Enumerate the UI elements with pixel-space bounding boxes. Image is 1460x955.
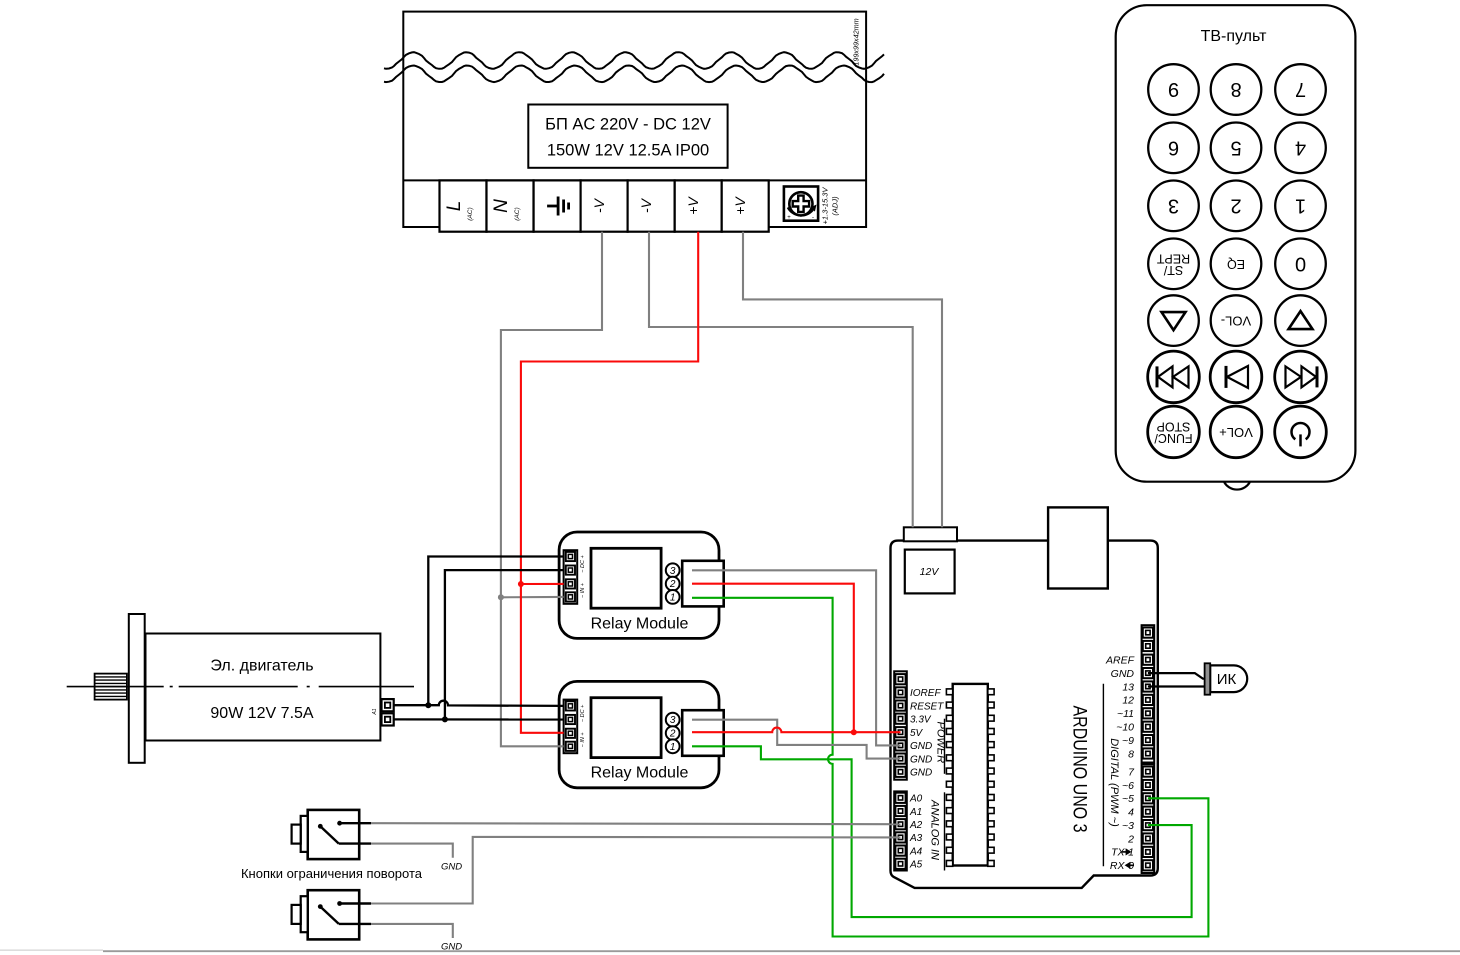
- pin POWER 7: [895, 754, 905, 764]
- svg-text:(ADJ): (ADJ): [831, 196, 840, 216]
- pin D6: [1143, 780, 1153, 790]
- svg-text:12V: 12V: [920, 566, 940, 578]
- svg-text:~11: ~11: [1117, 708, 1134, 720]
- pin D12 upper header 3: [1143, 668, 1153, 678]
- pin POWER 6: [895, 740, 905, 750]
- Arduino ANALOG IN header: [894, 791, 907, 870]
- relay RM2 output contact 2: [666, 726, 680, 740]
- terminal strip top line: [403, 179, 866, 181]
- remote button 7: [1275, 64, 1326, 115]
- Arduino DIGITAL header lower: [1142, 764, 1155, 873]
- limit switch SW1 body: [308, 810, 360, 859]
- remote button down arrow: [1148, 295, 1199, 346]
- svg-text:3.3V: 3.3V: [910, 715, 932, 726]
- Arduino UNO board body: [891, 541, 1158, 888]
- junction red at 5V line: [851, 729, 857, 735]
- svg-text:A5: A5: [909, 860, 923, 871]
- remote button EQ: [1211, 238, 1262, 289]
- relay RM1 input pin 1: [566, 552, 575, 561]
- svg-text:1: 1: [670, 742, 676, 753]
- svg-text:150W 12V 12.5A IP00: 150W 12V 12.5A IP00: [547, 142, 709, 160]
- pin D3: [1143, 820, 1153, 830]
- svg-text:Relay Module: Relay Module: [591, 765, 689, 782]
- remote button prev track: [1148, 351, 1200, 403]
- relay RM2 output contact 1: [666, 739, 680, 753]
- svg-text:7: 7: [1295, 78, 1306, 100]
- motor M1 shaft knurl: [95, 674, 127, 700]
- svg-text:БП AC 220V - DC 12V: БП AC 220V - DC 12V: [545, 116, 711, 134]
- wire relay2 out2 to Arduino 5V (red) with hop: [692, 728, 901, 733]
- relay RM1 input pin 3: [566, 579, 575, 588]
- terminal 1 (L): [440, 180, 487, 231]
- relay RM2 relay box: [591, 698, 661, 758]
- pin D13 upper header 2: [1143, 655, 1153, 665]
- svg-text:GND: GND: [910, 754, 932, 765]
- remote button up arrow: [1275, 295, 1326, 346]
- wire relay2 out3 to Arduino GND (gray): [692, 720, 901, 759]
- wire relay1 out1 to Arduino pin ~5 (green): [692, 598, 1208, 937]
- relay RM2 input pin 3: [566, 729, 575, 738]
- svg-text:ТВ-пульт: ТВ-пульт: [1201, 28, 1268, 45]
- power supply value label box: [528, 105, 727, 168]
- svg-text:90W 12V 7.5A: 90W 12V 7.5A: [210, 705, 314, 722]
- remote button 9: [1148, 64, 1199, 115]
- wire relay2 out1 to Arduino pin ~3 (green): [692, 746, 1192, 917]
- relay RM2 output terminal block: [682, 710, 724, 756]
- svg-text:4: 4: [1128, 807, 1134, 819]
- svg-text:3: 3: [1168, 194, 1179, 216]
- svg-text:L: L: [444, 201, 465, 212]
- pin D2: [1143, 833, 1153, 843]
- motor M1 body: [146, 634, 381, 741]
- remote button 0: [1275, 238, 1326, 289]
- svg-text:A1: A1: [909, 807, 922, 818]
- svg-text:8: 8: [1128, 748, 1134, 760]
- potentiometer ADJ screw: [784, 187, 818, 221]
- IR receiver leads: [1148, 673, 1206, 679]
- svg-text:0: 0: [1128, 860, 1134, 872]
- pin POWER 1: [895, 674, 905, 684]
- remote button 5: [1211, 123, 1262, 174]
- remote button 1: [1275, 181, 1326, 232]
- Arduino USB connector: [1048, 507, 1108, 588]
- svg-text:199x99x42mm: 199x99x42mm: [852, 18, 861, 65]
- svg-text:8: 8: [1230, 78, 1241, 100]
- svg-text:VOL+: VOL+: [1219, 425, 1253, 440]
- wire PSU +V to Arduino 12V jack (gray): [743, 232, 942, 528]
- svg-text:~9: ~9: [1122, 735, 1134, 747]
- svg-text:(AC): (AC): [467, 207, 474, 220]
- svg-text:+: +: [787, 215, 791, 221]
- terminal 2 (N): [487, 180, 534, 231]
- pin D7 upper header 8: [1143, 735, 1153, 745]
- remote button 4: [1275, 123, 1326, 174]
- relay RM1 output contact 1: [666, 590, 680, 604]
- junction motor wire 2: [442, 716, 448, 722]
- terminal 7 (+V): [722, 180, 769, 231]
- svg-text:GND: GND: [910, 741, 932, 752]
- svg-text:− DC +: − DC +: [580, 704, 586, 722]
- Arduino POWER header: [894, 671, 907, 779]
- svg-text:Эл. двигатель: Эл. двигатель: [210, 658, 313, 675]
- terminal 5 (-V): [628, 180, 675, 231]
- svg-text:A0: A0: [909, 794, 923, 805]
- svg-text:ANALOG IN: ANALOG IN: [929, 799, 941, 860]
- svg-text:IOREF: IOREF: [910, 688, 941, 699]
- remote button play/pause: [1210, 351, 1262, 403]
- TV remote body: [1116, 5, 1356, 482]
- power supply break wavy line lower: [384, 66, 884, 83]
- relay RM2 input header: [564, 700, 578, 754]
- svg-text:AREF: AREF: [1105, 655, 1135, 667]
- limit switch SW1 contacts and lever: [337, 821, 342, 826]
- terminal 4 (-V): [581, 180, 628, 231]
- limit switch SW1 plunger: [301, 816, 308, 852]
- remote button power: [1275, 406, 1327, 458]
- relay RM2 input pin 2: [566, 715, 575, 724]
- pin D9 upper header 6: [1143, 708, 1153, 718]
- junction gray at relay1 GND input: [501, 596, 564, 598]
- power supply break wavy line upper: [384, 52, 884, 69]
- terminal 6 (+V): [675, 180, 722, 231]
- svg-text:~5: ~5: [1122, 793, 1134, 805]
- wire relay1 out3 to Arduino GND (gray): [692, 570, 901, 745]
- svg-text:2: 2: [1230, 194, 1241, 216]
- remote button 2: [1211, 181, 1262, 232]
- svg-text:A3: A3: [909, 833, 923, 844]
- svg-text:EQ: EQ: [1227, 257, 1245, 271]
- junction motor wire 1: [425, 702, 431, 708]
- pin D7: [1143, 767, 1153, 777]
- svg-text:-V: -V: [638, 197, 654, 213]
- svg-text:GND: GND: [441, 862, 462, 873]
- remote button VOL-: [1211, 295, 1262, 346]
- pin POWER 2: [895, 687, 905, 697]
- svg-text:Relay Module: Relay Module: [591, 615, 689, 632]
- pin D0: [1143, 860, 1153, 870]
- pin D0 upper header 0: [1143, 628, 1153, 638]
- Arduino DIGITAL header upper: [1142, 625, 1155, 762]
- pin D8 upper header 7: [1143, 722, 1153, 732]
- pin A1: [895, 806, 905, 816]
- wire PSU -V to relays (gray): [501, 232, 602, 747]
- limit switch SW2 body: [308, 890, 360, 939]
- svg-text:1: 1: [670, 592, 676, 603]
- wire switch1 to GND (gray): [371, 844, 453, 858]
- svg-text:− IN +: − IN +: [580, 582, 586, 598]
- pin D4: [1143, 807, 1153, 817]
- limit switch SW2 plunger: [301, 896, 308, 932]
- svg-text:RESET: RESET: [910, 701, 944, 712]
- page bottom border: [0, 949, 103, 951]
- svg-text:~3: ~3: [1122, 820, 1134, 832]
- power supply U1 body: [403, 12, 866, 227]
- svg-text:GND: GND: [1111, 668, 1135, 680]
- pin POWER 3: [895, 701, 905, 711]
- wire PSU -V to Arduino 12V jack (gray): [649, 232, 913, 528]
- motor M1 axis line: [67, 686, 414, 688]
- svg-text:1: 1: [1295, 194, 1306, 216]
- svg-text:A4: A4: [909, 846, 923, 857]
- junction red at relay1 DC+ input: [521, 583, 564, 585]
- svg-text:0: 0: [1295, 252, 1306, 274]
- svg-text:6: 6: [1168, 136, 1179, 158]
- pin POWER 4: [895, 714, 905, 724]
- wire switch1 to Arduino A2 (gray): [371, 823, 901, 824]
- svg-text:5V: 5V: [910, 728, 924, 739]
- svg-text:+V: +V: [732, 196, 748, 215]
- svg-text:VOL-: VOL-: [1221, 314, 1251, 329]
- remote button VOL+: [1210, 406, 1262, 458]
- relay module RM2 body: [559, 681, 719, 787]
- limit switch SW2 contacts and lever: [337, 901, 342, 906]
- wire motor pin2 to relay2 IN2 and relay1 IN2 (black): [394, 718, 564, 720]
- remote button ST/REPT: [1148, 238, 1199, 289]
- svg-text:REPT: REPT: [1156, 251, 1190, 265]
- IR receiver body: [1210, 665, 1247, 692]
- relay RM1 input pin 2: [566, 566, 575, 575]
- relay RM1 output terminal block: [682, 561, 724, 607]
- svg-text:+1.3-15.3V: +1.3-15.3V: [821, 187, 830, 225]
- pin A2: [895, 819, 905, 829]
- pin D5: [1143, 793, 1153, 803]
- terminal 3 (G): [534, 180, 581, 231]
- microcontroller IC: [953, 684, 988, 866]
- relay RM1 relay box: [591, 548, 661, 608]
- svg-text:3: 3: [670, 715, 676, 726]
- svg-text:− IN +: − IN +: [580, 732, 586, 748]
- pin D1: [1143, 847, 1153, 857]
- svg-text:GND: GND: [910, 768, 932, 779]
- remote button 6: [1148, 123, 1199, 174]
- svg-text:RX: RX: [1110, 860, 1126, 872]
- pin A5: [895, 859, 905, 869]
- svg-text:-V: -V: [591, 197, 607, 213]
- pin D10 upper header 5: [1143, 695, 1153, 705]
- pin A0: [895, 793, 905, 803]
- svg-text:12: 12: [1122, 695, 1134, 707]
- svg-text:5: 5: [1230, 136, 1241, 158]
- remote button 3: [1148, 181, 1199, 232]
- relay RM1 output contact 2: [666, 577, 680, 591]
- pin D6 upper header 9: [1143, 748, 1153, 758]
- svg-text:(AC): (AC): [514, 207, 521, 220]
- svg-text:STOP: STOP: [1157, 419, 1191, 433]
- relay RM2 output contact 3: [666, 713, 680, 727]
- Arduino 12V power jack: [905, 550, 955, 594]
- Arduino power jack plug: [904, 527, 957, 541]
- svg-text:Кнопки ограничения поворота: Кнопки ограничения поворота: [241, 866, 423, 881]
- svg-text:~6: ~6: [1122, 780, 1134, 792]
- wire switch2 to GND (gray): [371, 924, 453, 938]
- wire motor pin1 to relay2 IN1 and relay1 IN1 (black): [394, 701, 564, 706]
- motor connector pins: [382, 699, 394, 711]
- pin POWER 8: [895, 767, 905, 777]
- svg-text:3: 3: [670, 566, 676, 577]
- relay module RM1 body: [559, 532, 719, 638]
- motor M1 mounting flange: [129, 614, 145, 763]
- relay RM2 input pin 1: [566, 701, 575, 710]
- wire relay1 out2 to 5V line (red): [692, 584, 854, 733]
- wire switch2 to Arduino A3 (gray): [371, 837, 901, 904]
- svg-text:2: 2: [669, 579, 676, 590]
- svg-text:~10: ~10: [1116, 722, 1134, 734]
- svg-text:-: -: [812, 215, 814, 221]
- svg-text:A1: A1: [372, 708, 378, 715]
- svg-text:2: 2: [669, 729, 676, 740]
- TV remote IR bump: [1224, 482, 1250, 489]
- svg-text:4: 4: [1295, 136, 1306, 158]
- pin A4: [895, 846, 905, 856]
- svg-text:9: 9: [1168, 78, 1179, 100]
- svg-text:13: 13: [1122, 681, 1134, 693]
- svg-text:+V: +V: [685, 196, 701, 215]
- pin D11 upper header 4: [1143, 681, 1153, 691]
- relay RM1 input header: [564, 550, 578, 604]
- pin A3: [895, 832, 905, 842]
- pin POWER 5: [895, 727, 905, 737]
- remote button next track: [1275, 351, 1327, 403]
- relay RM1 output contact 3: [666, 563, 680, 577]
- pin D0 upper header 1: [1143, 641, 1153, 651]
- svg-text:A2: A2: [909, 820, 923, 831]
- svg-text:1: 1: [1128, 847, 1134, 859]
- relay RM2 input pin 4: [566, 742, 575, 751]
- svg-text:N: N: [491, 199, 512, 213]
- svg-text:ИК: ИК: [1217, 671, 1237, 688]
- relay RM1 input pin 4: [566, 592, 575, 601]
- svg-text:DIGITAL (PWM ~): DIGITAL (PWM ~): [1108, 738, 1120, 827]
- svg-text:2: 2: [1127, 833, 1134, 845]
- remote button 8: [1211, 64, 1262, 115]
- wire PSU +V to relays (red): [521, 232, 698, 733]
- svg-text:ARDUINO UNO 3: ARDUINO UNO 3: [1069, 706, 1090, 833]
- svg-text:− DC +: − DC +: [580, 555, 586, 573]
- remote button FUNC/STOP: [1148, 406, 1200, 458]
